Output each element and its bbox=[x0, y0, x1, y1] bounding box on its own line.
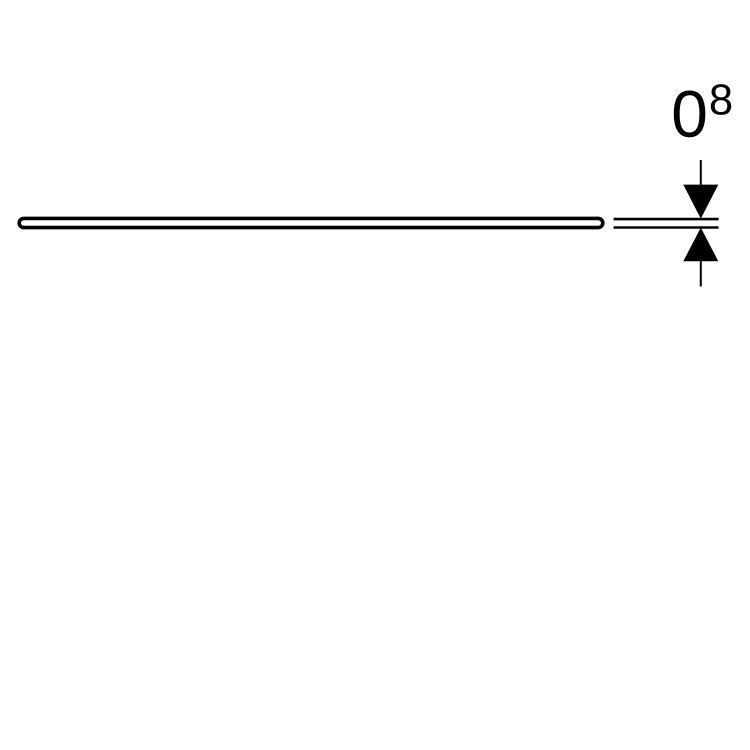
panel bar (thin profile cross-section) bbox=[19, 218, 603, 227]
dimension value superscript 8 bbox=[711, 84, 731, 115]
dimension leader bottom bbox=[700, 250, 702, 287]
dimension value 0 bbox=[674, 91, 706, 138]
arrowhead down bbox=[683, 185, 718, 219]
dimension leader top bbox=[700, 160, 702, 200]
extension line top bbox=[614, 218, 719, 221]
extension line bottom bbox=[614, 226, 719, 229]
arrowhead up bbox=[683, 228, 718, 262]
